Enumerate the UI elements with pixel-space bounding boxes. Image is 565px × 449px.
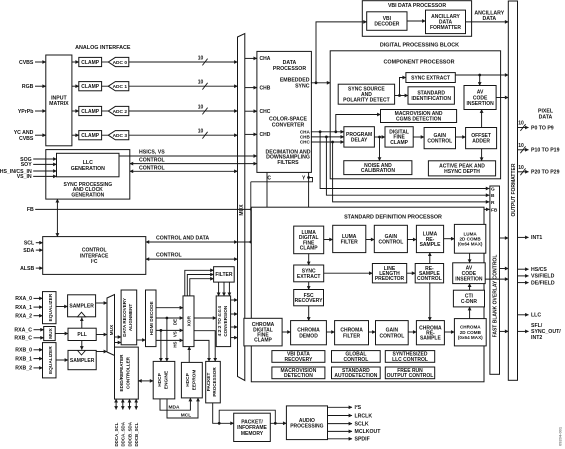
svg-text:CLAMP: CLAMP <box>254 338 272 344</box>
svg-text:INT1: INT1 <box>531 235 542 241</box>
svg-text:RXA_2: RXA_2 <box>15 314 32 320</box>
svg-text:ENGINE: ENGINE <box>164 370 170 389</box>
svg-text:FAST BLANK OVERLAY CONTROL: FAST BLANK OVERLAY CONTROL <box>493 255 499 338</box>
svg-text:LLC: LLC <box>531 313 541 319</box>
svg-text:SCL: SCL <box>24 241 35 247</box>
svg-text:ANALOG INTERFACE: ANALOG INTERFACE <box>75 45 131 51</box>
svg-text:SCLK: SCLK <box>355 421 369 427</box>
svg-text:10: 10 <box>518 165 524 171</box>
svg-text:EXTRACT: EXTRACT <box>297 274 321 280</box>
svg-text:CLAMP: CLAMP <box>81 109 99 115</box>
svg-text:RXA_1: RXA_1 <box>15 305 32 311</box>
svg-text:SOY: SOY <box>21 162 32 168</box>
svg-text:EEPROM: EEPROM <box>192 370 198 391</box>
svg-text:DDCB_SCL: DDCB_SCL <box>134 422 139 446</box>
svg-text:LRCLK: LRCLK <box>355 413 373 419</box>
svg-text:RXB_C: RXB_C <box>14 336 32 342</box>
svg-text:GENERATION: GENERATION <box>71 192 104 198</box>
svg-text:P10 TO P19: P10 TO P19 <box>531 148 560 154</box>
svg-text:MCLKOUT: MCLKOUT <box>355 429 382 435</box>
svg-text:CONTROLLER: CONTROLLER <box>126 356 131 389</box>
svg-text:ADDER: ADDER <box>472 139 490 145</box>
svg-text:HS: HS <box>173 341 178 347</box>
svg-text:CONTROL: CONTROL <box>427 139 452 145</box>
svg-text:ALSB: ALSB <box>20 266 34 272</box>
svg-text:SDA: SDA <box>23 248 34 254</box>
svg-text:PREDICTOR: PREDICTOR <box>375 276 405 282</box>
svg-text:INSERTION: INSERTION <box>466 101 494 107</box>
svg-text:SAMPLE: SAMPLE <box>420 242 442 248</box>
svg-text:COMPONENT PROCESSOR: COMPONENT PROCESSOR <box>384 59 455 65</box>
svg-text:10: 10 <box>198 104 204 110</box>
svg-text:POLARITY DETECT: POLARITY DETECT <box>343 97 390 103</box>
svg-text:AUTODETECTION: AUTODETECTION <box>334 373 377 379</box>
svg-text:RECOVERY: RECOVERY <box>295 298 324 304</box>
svg-text:10: 10 <box>518 121 524 127</box>
svg-text:DE/FIELD: DE/FIELD <box>531 280 555 286</box>
svg-text:C: C <box>267 175 271 181</box>
svg-text:10: 10 <box>518 143 524 149</box>
svg-text:MUX: MUX <box>109 324 115 335</box>
svg-text:HDCP: HDCP <box>185 372 191 386</box>
svg-text:INT2: INT2 <box>531 335 542 341</box>
svg-text:SAMPLER: SAMPLER <box>70 358 95 364</box>
svg-text:CONVERSION: CONVERSION <box>223 305 228 337</box>
svg-text:MUX: MUX <box>48 327 54 338</box>
svg-text:CONTROL: CONTROL <box>380 333 405 339</box>
svg-text:SAMPLE: SAMPLE <box>420 336 442 342</box>
svg-text:INSERTION: INSERTION <box>455 276 483 282</box>
svg-text:SPDIF: SPDIF <box>355 437 370 443</box>
svg-text:ADC 3: ADC 3 <box>113 133 128 139</box>
svg-text:R: R <box>491 200 495 206</box>
svg-text:DATA: DATA <box>482 16 496 22</box>
svg-text:SYNC: SYNC <box>295 83 310 89</box>
svg-text:CLAMP: CLAMP <box>81 60 99 66</box>
svg-text:LLC CONTROL: LLC CONTROL <box>392 357 428 363</box>
svg-text:VS: VS <box>173 331 178 337</box>
svg-text:FILTER: FILTER <box>215 272 233 278</box>
svg-text:CVBS: CVBS <box>19 136 34 142</box>
svg-text:CONTROL: CONTROL <box>379 240 404 246</box>
svg-text:DATA: DATA <box>539 115 553 121</box>
svg-text:4:2:2 TO 4:4:4: 4:2:2 TO 4:4:4 <box>217 306 222 337</box>
svg-text:I²C: I²C <box>91 259 98 265</box>
svg-text:ADC 0: ADC 0 <box>113 60 128 66</box>
svg-text:FB: FB <box>491 207 498 213</box>
svg-text:DIGITAL PROCESSING BLOCK: DIGITAL PROCESSING BLOCK <box>380 43 459 49</box>
svg-text:CONVERTER: CONVERTER <box>272 122 305 128</box>
svg-text:RGB: RGB <box>22 84 34 90</box>
svg-text:(0x64 MAX): (0x64 MAX) <box>458 242 483 247</box>
svg-text:DDCA_SDA: DDCA_SDA <box>121 421 126 446</box>
svg-text:EDID/REPEATER: EDID/REPEATER <box>119 354 124 392</box>
svg-text:MEMORY: MEMORY <box>241 431 264 437</box>
svg-text:(0x64 MAX): (0x64 MAX) <box>458 335 483 340</box>
svg-text:OUTPUT CONTROL: OUTPUT CONTROL <box>387 373 434 379</box>
svg-text:MATRIX: MATRIX <box>49 101 69 107</box>
svg-text:10: 10 <box>198 129 204 135</box>
svg-text:EQUALIZER: EQUALIZER <box>48 346 54 374</box>
svg-text:CONTROL: CONTROL <box>139 165 165 171</box>
svg-text:HDMI DECODE: HDMI DECODE <box>149 300 155 335</box>
svg-text:PROCESSING: PROCESSING <box>290 423 323 429</box>
svg-text:CLAMP: CLAMP <box>300 246 318 252</box>
svg-text:RXB_2: RXB_2 <box>15 366 32 372</box>
svg-text:CONTROL: CONTROL <box>139 158 165 164</box>
svg-text:DETECTION: DETECTION <box>284 373 313 379</box>
svg-text:CONTROL: CONTROL <box>344 357 369 363</box>
svg-text:PACKET: PACKET <box>206 373 211 392</box>
svg-text:P0 TO P9: P0 TO P9 <box>531 125 554 131</box>
svg-text:CONTROL: CONTROL <box>156 253 182 259</box>
svg-text:CONTROL: CONTROL <box>417 276 442 282</box>
svg-text:DELAY: DELAY <box>351 138 368 144</box>
svg-text:MCL: MCL <box>181 412 191 418</box>
svg-text:CLAMP: CLAMP <box>81 133 99 139</box>
svg-text:RXB_1: RXB_1 <box>15 356 32 362</box>
svg-text:OUTPUT FORMATTER: OUTPUT FORMATTER <box>511 163 517 216</box>
svg-text:FILTER: FILTER <box>341 240 359 246</box>
svg-text:FILTERS: FILTERS <box>277 160 299 166</box>
svg-text:DDCB_SDA: DDCB_SDA <box>127 421 132 446</box>
svg-text:IDENTIFICATION: IDENTIFICATION <box>411 96 451 102</box>
svg-text:CONTROL AND DATA: CONTROL AND DATA <box>156 236 209 242</box>
svg-text:DE: DE <box>173 319 178 325</box>
svg-text:CALIBRATION: CALIBRATION <box>361 168 395 174</box>
svg-text:SYNC EXTRACT: SYNC EXTRACT <box>411 75 450 81</box>
svg-text:XOR: XOR <box>187 315 193 326</box>
svg-text:DATA RECOVERY: DATA RECOVERY <box>122 298 127 337</box>
svg-text:09204-001: 09204-001 <box>558 426 563 446</box>
svg-text:CHC: CHC <box>260 109 271 115</box>
svg-text:VS_IN: VS_IN <box>17 174 32 180</box>
svg-text:VBI DATA PROCESSOR: VBI DATA PROCESSOR <box>388 3 446 9</box>
svg-text:HSYNC DEPTH: HSYNC DEPTH <box>444 169 480 175</box>
svg-text:CHA: CHA <box>260 56 271 62</box>
svg-text:EQUALIZER: EQUALIZER <box>48 293 54 321</box>
svg-text:MDA: MDA <box>169 405 180 411</box>
svg-text:HS/CS: HS/CS <box>531 267 547 273</box>
svg-text:YPrPb: YPrPb <box>18 109 34 115</box>
svg-text:PLL: PLL <box>77 332 86 338</box>
svg-text:ADC 1: ADC 1 <box>113 84 128 90</box>
svg-text:CGMS DETECTION: CGMS DETECTION <box>396 117 442 123</box>
svg-text:RXA_0: RXA_0 <box>15 296 32 302</box>
svg-text:FB: FB <box>27 207 34 213</box>
svg-text:HSICS, VS: HSICS, VS <box>139 149 165 155</box>
svg-text:CLAMP: CLAMP <box>390 140 408 146</box>
svg-text:G: G <box>491 186 495 192</box>
svg-text:ALIGNMENT: ALIGNMENT <box>128 304 133 331</box>
svg-text:RECOVERY: RECOVERY <box>284 357 313 363</box>
svg-text:CHD: CHD <box>260 132 271 138</box>
svg-text:I²S: I²S <box>355 405 362 411</box>
svg-text:FORMATTER: FORMATTER <box>430 25 461 31</box>
svg-text:B: B <box>491 193 495 199</box>
svg-text:STANDARD DEFINITION PROCESSOR: STANDARD DEFINITION PROCESSOR <box>344 215 442 221</box>
svg-text:PROCESSOR: PROCESSOR <box>273 66 306 72</box>
svg-text:RXB_0: RXB_0 <box>15 348 32 354</box>
svg-text:C-DNR: C-DNR <box>461 299 477 305</box>
svg-text:CHC: CHC <box>300 140 311 145</box>
svg-text:DEMOD: DEMOD <box>299 333 318 339</box>
svg-text:CLAMP: CLAMP <box>81 84 99 90</box>
svg-text:DECODER: DECODER <box>374 22 399 28</box>
svg-text:RXA_C: RXA_C <box>14 328 32 334</box>
svg-text:PROCESSOR: PROCESSOR <box>212 367 217 397</box>
svg-text:DDCA_SCL: DDCA_SCL <box>114 422 119 446</box>
svg-text:ADC 2: ADC 2 <box>113 109 128 115</box>
svg-text:HDCP: HDCP <box>157 372 163 386</box>
svg-text:10: 10 <box>198 55 204 61</box>
svg-text:CVBS: CVBS <box>19 60 34 66</box>
svg-text:P20 TO P29: P20 TO P29 <box>531 170 560 176</box>
svg-text:FILTER: FILTER <box>343 333 361 339</box>
svg-text:VS/FIELD: VS/FIELD <box>531 274 555 280</box>
svg-text:SAMPLER: SAMPLER <box>69 304 94 310</box>
svg-text:10: 10 <box>198 80 204 86</box>
svg-text:CHB: CHB <box>260 85 271 91</box>
svg-text:GENERATION: GENERATION <box>71 166 105 172</box>
